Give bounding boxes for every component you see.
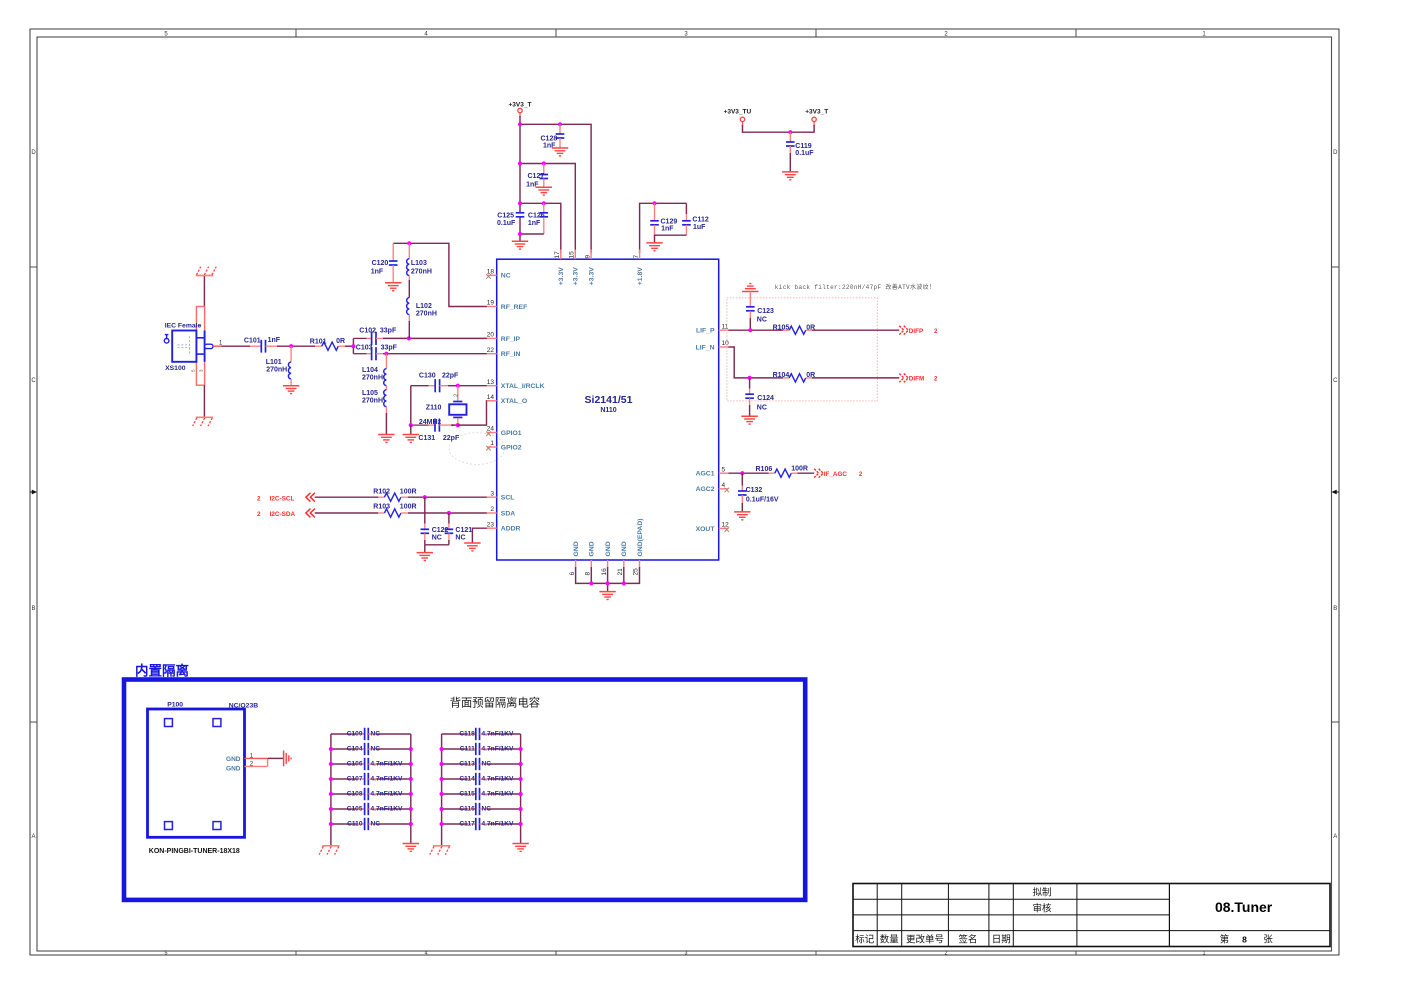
frame column numbers bottom (165, 951, 1206, 957)
svg-text:NC: NC (757, 317, 767, 324)
frame center arrow right (1332, 490, 1340, 495)
svg-text:2: 2 (257, 495, 261, 502)
junction (748, 328, 752, 332)
svg-text:3: 3 (685, 951, 688, 957)
svg-text:C120: C120 (372, 260, 389, 267)
wire crystal to XTAL_O pin 14 (458, 401, 490, 425)
svg-text:R103: R103 (373, 504, 390, 511)
resistor R101 (310, 338, 345, 351)
svg-text:GPIO1: GPIO1 (501, 430, 522, 437)
capacitor C125 (497, 213, 524, 228)
ground under C132 (734, 512, 750, 520)
svg-text:1: 1 (1203, 951, 1206, 957)
svg-text:4.7nF/1KV: 4.7nF/1KV (482, 790, 514, 797)
off-page IF_AGC (814, 469, 863, 478)
svg-text:C112: C112 (692, 217, 708, 224)
junction (456, 384, 460, 388)
svg-text:NC: NC (482, 805, 492, 812)
svg-text:L102: L102 (416, 303, 432, 310)
pin 23 ADDR (487, 521, 521, 532)
capacitor C111 (440, 743, 523, 755)
label P100 (167, 701, 183, 708)
junction (289, 344, 293, 348)
capacitor C127 (526, 164, 548, 189)
svg-text:IEC Female: IEC Female (165, 323, 202, 330)
capacitor C115 (440, 788, 523, 800)
svg-text:C: C (1333, 378, 1338, 384)
svg-text:B: B (31, 606, 35, 612)
svg-text:数量: 数量 (880, 933, 900, 945)
capacitor C121 (445, 513, 473, 545)
svg-text:0R: 0R (336, 338, 345, 345)
svg-text:22: 22 (487, 347, 495, 354)
svg-text:33pF: 33pF (380, 327, 397, 334)
ground under C119 (782, 172, 798, 180)
wire R104 to DIFM (806, 377, 900, 379)
pin 4 AGC2 (696, 482, 729, 493)
svg-text:GND: GND (621, 541, 628, 556)
svg-text:XOUT: XOUT (696, 526, 716, 533)
wire R102 to pin 3 (401, 496, 487, 498)
svg-text:C129: C129 (661, 219, 678, 226)
wire rail branch to pin 9 (520, 124, 591, 253)
svg-text:2: 2 (490, 506, 494, 513)
svg-text:08.Tuner: 08.Tuner (1215, 899, 1273, 915)
wire R105 to DIFP (806, 329, 900, 331)
svg-text:C121: C121 (455, 527, 472, 534)
earth below connector (193, 417, 214, 426)
svg-text:C101: C101 (244, 337, 261, 344)
pin 16 GND (601, 541, 612, 575)
svg-text:C118: C118 (459, 730, 475, 737)
op-amp U1 main IC Si2141/51 N110 (497, 259, 719, 560)
pin 15 +3.3V (569, 250, 580, 286)
wire ADDR pin 23 to ground (472, 528, 487, 543)
ground under L101 (283, 386, 299, 394)
svg-text:4.7nF/1KV: 4.7nF/1KV (482, 820, 514, 827)
junction (407, 336, 411, 340)
svg-text:4.7nF/1KV: 4.7nF/1KV (371, 790, 403, 797)
svg-text:LIF_P: LIF_P (696, 328, 715, 335)
junction (384, 352, 388, 356)
svg-text:0.1uF: 0.1uF (795, 150, 814, 157)
wire cap bottoms join (425, 545, 449, 553)
svg-text:21: 21 (617, 568, 624, 576)
pin 6 GND (569, 541, 580, 575)
svg-text:IF_AGC: IF_AGC (824, 471, 848, 478)
wire C112 bottom join (655, 235, 687, 242)
resistor R103 (373, 504, 416, 517)
svg-text:kick back filter:220nH/47pF 改善: kick back filter:220nH/47pF 改善ATV水波纹！ (775, 283, 936, 291)
svg-text:23: 23 (487, 521, 495, 528)
inductor L105 (362, 386, 386, 435)
wire power tie (743, 125, 815, 132)
svg-text:4.7nF/1KV: 4.7nF/1KV (482, 730, 514, 737)
resistor R102 (373, 488, 416, 501)
svg-text:1nF: 1nF (268, 337, 281, 344)
connector XS100 shield (196, 307, 204, 386)
svg-text:16: 16 (601, 568, 608, 576)
wire pin1 to C101 (213, 345, 261, 347)
svg-text:GND: GND (573, 541, 580, 556)
capacitor C131 (411, 419, 460, 443)
svg-text:NC: NC (501, 273, 511, 280)
capacitor C112 (682, 203, 709, 235)
wire SCL (315, 496, 385, 498)
off-page I2C-SCL (257, 493, 315, 503)
sheet number 第 8 张 (1220, 933, 1274, 945)
wire R103 to pin 2 (401, 512, 487, 514)
pin 1 GPIO2 (486, 440, 522, 451)
pin 9 +3.3V (584, 250, 595, 286)
title 08.Tuner (1215, 899, 1273, 915)
pin 17 +3.3V (554, 250, 565, 286)
svg-text:GPIO2: GPIO2 (501, 444, 522, 451)
capacitor C129 (650, 203, 677, 235)
svg-text:拟制: 拟制 (1032, 887, 1051, 899)
connector label IEC Female (165, 323, 202, 330)
wire RF_IN to pin 22 (383, 353, 487, 355)
wire earth to connector shield (203, 276, 205, 306)
wire +1.8V branch to pin 7 (640, 203, 687, 253)
wire RF_IP to pin 20 (383, 337, 487, 339)
svg-text:C110: C110 (347, 820, 363, 827)
capacitor C108 (329, 788, 413, 800)
svg-text:D: D (31, 150, 36, 156)
capacitor C109 (331, 728, 411, 740)
svg-text:XTAL_O: XTAL_O (501, 398, 527, 405)
junction (447, 511, 451, 515)
ground under GND bus (599, 592, 615, 600)
junction (788, 130, 792, 134)
svg-text:C124: C124 (757, 395, 774, 402)
svg-text:2: 2 (945, 951, 948, 957)
wire AGC1 (729, 472, 775, 474)
connector ref XS100 (165, 365, 186, 372)
isolation cap column 1 buses (331, 734, 411, 845)
svg-text:10: 10 (722, 340, 730, 347)
svg-text:270nH: 270nH (411, 269, 432, 276)
wire P100 pins to ground (245, 758, 284, 766)
pin 10 LIF_N (696, 340, 730, 351)
svg-text:0.1uF/16V: 0.1uF/16V (746, 496, 779, 503)
svg-text:5: 5 (191, 369, 196, 372)
svg-text:P100: P100 (167, 701, 183, 708)
frame row letters (31, 150, 1338, 840)
svg-text:RF_REF: RF_REF (501, 304, 527, 311)
ground under C122 (417, 553, 433, 561)
node split RF_IP / RF_IN (352, 338, 354, 353)
svg-text:C106: C106 (347, 760, 363, 767)
svg-text:11: 11 (722, 323, 729, 330)
capacitor C117 (440, 818, 523, 830)
svg-text:100R: 100R (791, 466, 808, 473)
svg-text:22pF: 22pF (442, 372, 459, 379)
svg-text:ADDR: ADDR (501, 526, 521, 533)
svg-text:L101: L101 (266, 359, 282, 366)
wire LIF_N (729, 347, 790, 378)
svg-text:NC: NC (482, 760, 492, 767)
svg-text:NC: NC (371, 730, 381, 737)
svg-text:C127: C127 (528, 173, 545, 180)
svg-text:C107: C107 (347, 775, 363, 782)
svg-text:+1.8V: +1.8V (637, 267, 644, 285)
junction (351, 344, 355, 348)
svg-text:R106: R106 (756, 466, 773, 473)
pin 12 XOUT (696, 522, 730, 533)
wire C126 bottom join (520, 233, 544, 235)
svg-text:25: 25 (633, 568, 640, 576)
svg-text:C132: C132 (746, 487, 763, 494)
capacitor C114 (440, 773, 523, 785)
svg-text:L103: L103 (411, 260, 427, 267)
wire R101 to node (338, 345, 353, 347)
junction (423, 495, 427, 499)
capacitor C130 (411, 372, 459, 392)
svg-text:1nF: 1nF (528, 220, 541, 227)
svg-text:C103: C103 (356, 345, 373, 352)
pin 21 GND (617, 541, 628, 575)
svg-text:4.7nF/1KV: 4.7nF/1KV (482, 775, 514, 782)
ground under C128 (552, 148, 568, 156)
capacitor C126 (528, 203, 548, 234)
svg-text:审核: 审核 (1032, 902, 1052, 914)
svg-text:I2C-SDA: I2C-SDA (270, 511, 296, 518)
svg-text:C128: C128 (541, 136, 558, 143)
svg-text:2: 2 (453, 394, 459, 397)
wire R106 to IF_AGC (791, 472, 814, 474)
capacitor C128 (541, 124, 565, 149)
svg-text:C115: C115 (459, 790, 475, 797)
P100 pin names GND GND (226, 756, 241, 772)
svg-text:0.1uF: 0.1uF (497, 220, 516, 227)
junction (542, 161, 546, 165)
annotation ellipse near GPIO (449, 433, 505, 465)
svg-text:R104: R104 (773, 372, 790, 379)
svg-text:C123: C123 (757, 308, 774, 315)
svg-text:C131: C131 (418, 435, 435, 442)
capacitor C104 (329, 743, 413, 755)
pin 7 +1.8V (633, 250, 644, 286)
svg-text:C: C (31, 378, 36, 384)
svg-text:9: 9 (584, 255, 591, 259)
svg-text:5: 5 (165, 951, 168, 957)
capacitor C110 (329, 818, 413, 830)
junction (518, 201, 522, 205)
junction (740, 471, 744, 475)
svg-text:+3.3V: +3.3V (589, 267, 596, 285)
connector XS100 body (164, 331, 213, 362)
wire RF_REF top branch (393, 243, 487, 306)
junction (748, 376, 752, 380)
capacitor C106 (329, 758, 413, 770)
ground under L105 (378, 435, 394, 443)
svg-text:N110: N110 (600, 407, 616, 414)
pin 19 RF_REF (487, 300, 527, 311)
svg-text:R101: R101 (310, 338, 327, 345)
svg-text:C108: C108 (347, 790, 363, 797)
junction (409, 423, 413, 427)
capacitor C105 (329, 803, 413, 815)
svg-text:C126: C126 (528, 213, 545, 220)
pin 3 SCL (487, 490, 515, 501)
svg-text:NC: NC (371, 745, 381, 752)
earth above connector (196, 267, 217, 276)
svg-text:DIFP: DIFP (909, 328, 923, 335)
svg-text:4.7nF/1KV: 4.7nF/1KV (371, 805, 403, 812)
svg-text:NC: NC (455, 534, 465, 541)
svg-text:AGC2: AGC2 (696, 486, 715, 493)
svg-text:Si2141/51: Si2141/51 (585, 394, 633, 406)
ground under C124 (741, 416, 757, 424)
power +3V3_TU (724, 109, 752, 126)
wire C101 to R101 (266, 345, 322, 347)
connector pin numbers (191, 324, 204, 372)
svg-text:NC: NC (432, 534, 442, 541)
junction (407, 241, 411, 245)
wire C130 left leg down (410, 386, 412, 425)
resistor R104 (773, 372, 816, 382)
capacitor C107 (329, 773, 413, 785)
svg-text:14: 14 (487, 394, 495, 401)
wire +3V3_T vertical rail (519, 116, 521, 241)
off-page DIFP (899, 326, 938, 335)
svg-text:NC/O23B: NC/O23B (229, 703, 259, 710)
capacitor C122 (421, 497, 449, 545)
pin 13 XTAL_I/RCLK (487, 379, 545, 390)
crystal pin numbers (452, 394, 459, 427)
svg-text:C113: C113 (459, 760, 475, 767)
svg-text:+3.3V: +3.3V (558, 267, 565, 285)
junction (518, 161, 522, 165)
svg-text:GND: GND (589, 541, 596, 556)
svg-text:1nF: 1nF (661, 226, 674, 233)
label KON-PINGBI-TUNER-18X18 (149, 848, 240, 855)
pin 5 AGC1 (696, 466, 729, 477)
wire C131 node to ground (410, 425, 412, 434)
junction (456, 423, 460, 427)
svg-text:A: A (1333, 834, 1337, 840)
ground right of P100 (284, 751, 291, 767)
capacitor C102 (353, 327, 397, 345)
ground under column 2 right bus (512, 844, 528, 852)
svg-text:NC: NC (371, 820, 381, 827)
svg-text:C111: C111 (460, 745, 475, 752)
earth under column 2 left bus (430, 846, 451, 855)
ground under C129 (646, 243, 662, 251)
capacitor C113 (440, 758, 523, 770)
svg-text:AGC1: AGC1 (696, 471, 715, 478)
svg-text:2: 2 (257, 511, 261, 518)
svg-text:XS100: XS100 (165, 365, 186, 372)
wire connector to earth below (203, 385, 205, 417)
svg-text:20: 20 (487, 332, 495, 339)
pin 18 NC (486, 269, 511, 280)
capacitor C120 (371, 243, 398, 282)
svg-text:L105: L105 (362, 390, 378, 397)
svg-text:15: 15 (569, 251, 576, 259)
wire GND bus under IC (576, 567, 640, 591)
svg-text:3: 3 (490, 490, 494, 497)
svg-text:17: 17 (554, 251, 561, 259)
resistor R106 (756, 466, 808, 478)
svg-text:GND: GND (226, 756, 241, 763)
svg-text:B: B (1333, 606, 1337, 612)
svg-text:6: 6 (569, 572, 576, 576)
svg-text:内置隔离: 内置隔离 (135, 663, 189, 679)
power +3V3_T (509, 101, 532, 117)
pin 11 LIF_P (696, 323, 729, 334)
wire rail branch to pin 15 (520, 164, 575, 254)
wire L103 to L102 (408, 280, 410, 298)
pin 25 GND(EPAD) (633, 518, 644, 575)
earth under column 1 left bus (319, 846, 340, 855)
svg-text:C109: C109 (347, 730, 363, 737)
pin 24 GPIO1 (486, 426, 522, 437)
svg-text:19: 19 (487, 300, 495, 307)
ground under column 1 right bus (403, 844, 419, 852)
svg-text:R105: R105 (773, 324, 790, 331)
svg-text:+3.3V: +3.3V (573, 267, 580, 285)
ground under C120 (385, 283, 401, 291)
wire XTAL_I to pin 13 (458, 385, 487, 387)
title block labels (855, 887, 1052, 946)
svg-text:C125: C125 (497, 213, 514, 220)
svg-text:C130: C130 (419, 372, 436, 379)
svg-text:100R: 100R (400, 504, 417, 511)
svg-text:GND(EPAD): GND(EPAD) (637, 518, 644, 556)
isolation cap column 2 buses (442, 734, 521, 845)
ground under C127 (536, 187, 552, 195)
svg-text:4: 4 (425, 951, 428, 957)
svg-text:5: 5 (722, 466, 726, 473)
svg-text:GND: GND (605, 541, 612, 556)
svg-text:+3V3_T: +3V3_T (509, 101, 532, 108)
svg-text:+3V3_TU: +3V3_TU (724, 109, 752, 116)
svg-text:7: 7 (633, 255, 640, 259)
svg-text:SDA: SDA (501, 510, 515, 517)
pin 8 GND (585, 541, 596, 575)
svg-text:XTAL_I/RCLK: XTAL_I/RCLK (501, 383, 545, 390)
svg-text:4.7nF/1KV: 4.7nF/1KV (482, 745, 514, 752)
pin 2 SDA (487, 506, 515, 517)
svg-text:NC: NC (757, 405, 767, 412)
capacitor C101 (244, 337, 281, 353)
junction (652, 201, 656, 205)
svg-text:第: 第 (1220, 933, 1230, 945)
svg-text:270nH: 270nH (416, 311, 437, 318)
capacitor C116 (440, 803, 523, 815)
svg-text:C114: C114 (459, 775, 475, 782)
junction (518, 122, 522, 126)
svg-text:C102: C102 (359, 327, 376, 334)
junction (558, 122, 562, 126)
svg-text:张: 张 (1263, 934, 1273, 945)
svg-text:KON-PINGBI-TUNER-18X18: KON-PINGBI-TUNER-18X18 (149, 848, 240, 855)
pin 20 RF_IP (487, 332, 521, 343)
svg-text:270nH: 270nH (362, 375, 383, 382)
svg-text:270nH: 270nH (362, 397, 383, 404)
svg-text:日期: 日期 (992, 934, 1011, 945)
capacitor C123 (746, 292, 774, 331)
frame center arrow left (30, 490, 37, 495)
svg-text:LIF_N: LIF_N (696, 344, 715, 351)
dashed filter box (727, 298, 877, 401)
svg-text:4.7nF/1KV: 4.7nF/1KV (371, 760, 403, 767)
svg-text:C117: C117 (459, 820, 475, 827)
wire L102 to RF_IP (408, 321, 410, 338)
svg-text:270nH: 270nH (266, 367, 287, 374)
